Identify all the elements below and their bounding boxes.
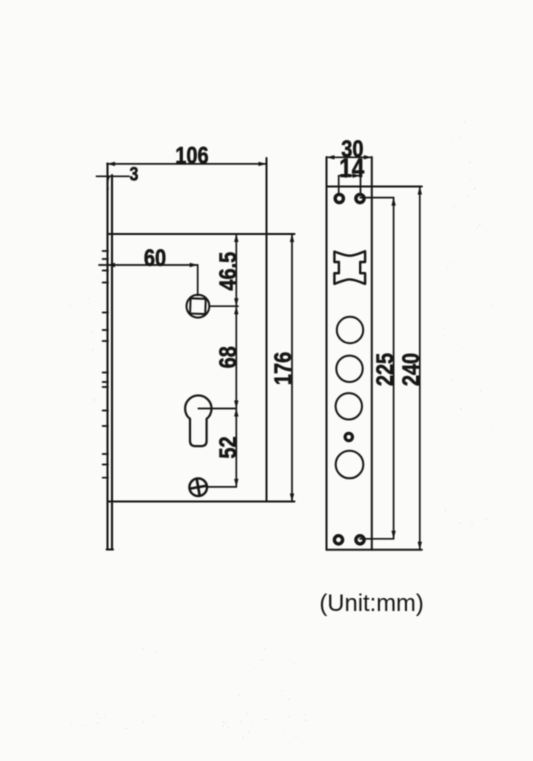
dimension 106 right arrow — [259, 162, 267, 166]
dimension 14 label — [339, 154, 364, 183]
svg-text:(Unit:mm): (Unit:mm) — [319, 590, 423, 617]
dimension 14 left arrow — [339, 174, 347, 178]
faceplate strip bottom edge — [107, 548, 113, 550]
bottom screw hole left — [334, 536, 342, 544]
faceplate small hole — [345, 433, 352, 440]
svg-text:68: 68 — [214, 346, 241, 368]
chain arrows at spindle line — [234, 298, 238, 314]
svg-text:225: 225 — [371, 353, 398, 386]
faceplate (front view) right edge — [371, 157, 373, 550]
svg-text:60: 60 — [144, 244, 166, 271]
dimension 176 label — [269, 352, 296, 385]
dimension 225 label — [371, 353, 398, 386]
dimension 240 label — [397, 353, 424, 386]
dimension 52 label — [214, 436, 241, 458]
dimension 3 label — [130, 163, 139, 185]
dimension 3 line — [96, 175, 129, 177]
dimension 106 label — [175, 142, 208, 169]
faceplate (front view) top edge (extends right for 240 dim) — [327, 186, 422, 188]
lock body bottom edge (extends right as extension line for 176) — [108, 501, 295, 503]
dimension 60 right arrow — [190, 263, 198, 267]
bottom screw hole right — [356, 536, 364, 544]
dimension 240 line — [419, 187, 421, 550]
dimension 240 bottom arrow — [418, 542, 422, 550]
chain arrow top (46.5 upper) — [234, 234, 238, 242]
dimension 14 leader right down to hole — [360, 176, 362, 194]
chain arrow bottom (52 lower) — [234, 479, 238, 487]
faceplate hole 1 — [337, 317, 363, 343]
dimension 60 leader down to square hole — [197, 265, 199, 296]
euro cylinder keyhole — [185, 395, 211, 446]
dimension 225 bottom arrow — [391, 531, 395, 539]
lock body top edge (extends right as extension line for 176) — [108, 233, 295, 235]
dimension 30 label — [341, 135, 363, 162]
faceplate hole 2 — [336, 356, 362, 382]
dimension 106 left arrow — [107, 162, 115, 166]
dimension 240 top arrow — [418, 187, 422, 195]
faceplate (front view) left edge — [326, 157, 328, 550]
svg-text:14: 14 — [339, 154, 364, 183]
serration tick marks on faceplate front edge — [103, 251, 108, 478]
svg-text:3: 3 — [130, 163, 139, 185]
chain arrows at cylinder line — [234, 401, 238, 417]
dimension 60 left arrow — [107, 263, 115, 267]
bottom fixing hole circle with cross — [189, 478, 207, 496]
faceplate hole 3 — [336, 393, 362, 419]
connector top screw hole to 225 dim — [360, 197, 393, 199]
scan speckle noise — [69, 121, 498, 738]
dimension 14 leader left down to hole — [338, 176, 340, 194]
spindle cross cutout — [334, 251, 365, 284]
top screw hole right — [356, 194, 364, 202]
connector from fixing hole to chain dim — [207, 486, 237, 488]
dimension 176 bottom arrow — [290, 494, 294, 502]
svg-text:176: 176 — [269, 352, 296, 385]
dimension 176 line — [291, 234, 293, 502]
dimension 14 right arrow — [353, 174, 361, 178]
chained dimension line 46.5/68/52 — [235, 234, 237, 487]
dimension 3 leader arc — [108, 177, 109, 189]
connector from spindle hole to chain dim — [209, 305, 238, 307]
dimension 225 line — [393, 198, 395, 539]
dimension 30 left arrow — [327, 155, 335, 159]
spindle hole circle — [187, 295, 210, 318]
dimension 14 line — [339, 175, 361, 177]
svg-text:106: 106 — [175, 142, 208, 169]
dimension 225 top arrow — [391, 198, 395, 206]
faceplate strip (side view) front edge — [106, 163, 108, 549]
svg-text:240: 240 — [397, 353, 424, 386]
connector from cylinder center to chain dim — [198, 408, 236, 410]
spindle hole square — [190, 298, 206, 314]
faceplate strip back edge — [111, 175, 113, 550]
dimension 106 line — [107, 163, 267, 165]
faceplate (front view) bottom edge (extends right for 240 dim) — [327, 549, 422, 551]
dimension 176 top arrow — [290, 234, 294, 242]
dimension 68 label — [214, 346, 241, 368]
top screw hole left — [335, 194, 343, 202]
dimension 46.5 label — [214, 252, 241, 291]
dimension 60 label — [144, 244, 166, 271]
dimension 30 line — [327, 156, 372, 158]
svg-text:52: 52 — [214, 436, 241, 458]
lock body back edge (also extension line of 106 dim) — [266, 158, 268, 502]
faceplate hole 4 — [336, 451, 364, 479]
dimension 60 line — [99, 264, 198, 266]
svg-text:46.5: 46.5 — [214, 252, 241, 291]
dimension 30 right arrow — [364, 155, 372, 159]
connector bottom screw hole to 225 dim — [360, 538, 394, 540]
